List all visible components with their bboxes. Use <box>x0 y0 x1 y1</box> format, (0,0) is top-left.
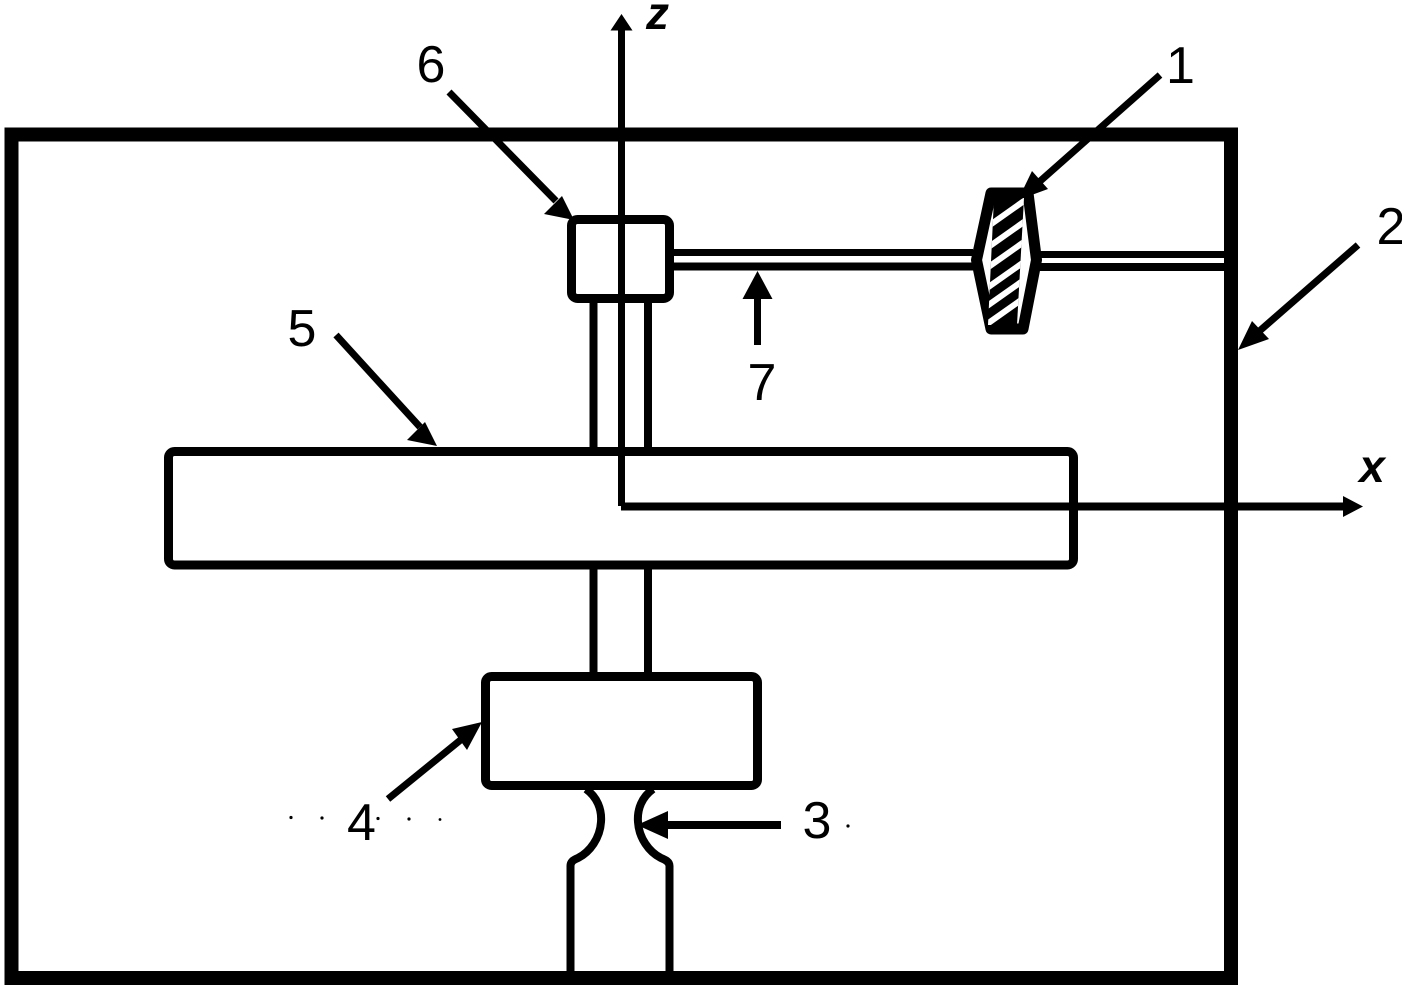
svg-text:2: 2 <box>1377 198 1402 256</box>
support neck 3 left profile <box>571 789 602 971</box>
stage bar 5 <box>169 452 1074 566</box>
svg-text:5: 5 <box>288 300 317 358</box>
arrowhead 2 <box>1238 321 1269 350</box>
column lower (between stage 5 and block 4) <box>594 560 649 680</box>
arrowhead 5 <box>407 422 437 446</box>
leader line 5 <box>336 335 420 427</box>
leader line 1 <box>1038 75 1160 183</box>
rod 7 upper line left of lens <box>672 249 973 256</box>
arrow 3 head <box>637 811 668 839</box>
svg-text:x: x <box>1356 440 1387 492</box>
lens 1 body <box>977 193 1037 329</box>
leader line 2 <box>1248 245 1358 341</box>
column upper (between block 6 and stage 5) <box>594 298 649 460</box>
rod 7 lower line left of lens <box>672 263 973 271</box>
arrowhead 4 <box>452 722 482 750</box>
arrowhead 1 <box>1018 171 1048 200</box>
svg-text:z: z <box>645 0 669 39</box>
leader line 4 <box>388 738 463 799</box>
arrowhead 6 <box>544 196 574 220</box>
dotted centre line <box>289 816 849 828</box>
x axis arrowhead <box>1343 496 1363 517</box>
arrow 3 shaft <box>665 821 781 829</box>
z axis line <box>618 24 625 506</box>
rod 7 upper line right of lens <box>1039 251 1225 258</box>
arrow 7 head <box>743 271 773 299</box>
svg-text:1: 1 <box>1166 37 1195 95</box>
x axis line <box>621 503 1348 511</box>
z axis arrowhead <box>611 14 633 31</box>
svg-text:6: 6 <box>417 36 446 94</box>
enclosure box 2 <box>12 135 1232 979</box>
svg-text:3: 3 <box>803 792 832 850</box>
support neck 3 right profile <box>638 789 670 971</box>
block 6 <box>572 220 670 299</box>
leader line 6 <box>449 92 556 201</box>
svg-text:4: 4 <box>347 794 376 852</box>
rod 7 lower line right of lens <box>1039 263 1225 271</box>
arrow 7 shaft <box>754 295 761 345</box>
svg-text:7: 7 <box>748 354 777 412</box>
block 4 <box>486 677 758 786</box>
